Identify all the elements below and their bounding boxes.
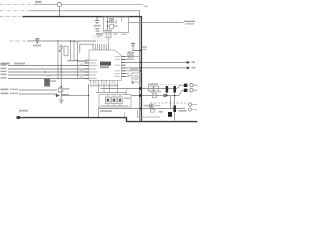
ground for C1 bbox=[95, 29, 100, 31]
label TP1 bbox=[35, 1, 42, 3]
label right top net bbox=[184, 21, 195, 23]
IC left pin name labels bbox=[90, 60, 97, 61]
resistor R6 bbox=[150, 104, 153, 108]
junction dots on rail bbox=[70, 40, 71, 41]
label left of R6 bbox=[144, 105, 150, 107]
label module vertical text bbox=[115, 20, 117, 24]
wire long thin bus top bbox=[30, 11, 140, 122]
wire bottom pin rail bbox=[96, 93, 126, 95]
capacitor C9 black bar bbox=[173, 106, 176, 113]
capacitor C7 polarized (black bar) bbox=[166, 86, 169, 93]
wire link x126 bbox=[125, 89, 127, 95]
transistor Q1 connector row bbox=[184, 84, 188, 87]
component D1 black block bbox=[168, 112, 172, 117]
junction C6 bbox=[140, 50, 142, 52]
label inside Z1 bbox=[124, 98, 130, 100]
ground symbol under cluster bbox=[59, 100, 63, 103]
label right of rail bbox=[143, 46, 148, 48]
label module bottom text bbox=[104, 30, 112, 32]
label at antenna line end bbox=[144, 6, 148, 8]
label near D1 bbox=[179, 110, 187, 112]
IC right pins bbox=[122, 57, 126, 77]
junction dots bus crossings bbox=[60, 65, 62, 67]
wire drop C bbox=[77, 41, 79, 79]
connector arrow K2 bbox=[187, 67, 190, 70]
trimmer C4 with X bbox=[106, 33, 111, 38]
wire lower row 2 bbox=[19, 93, 57, 95]
label L1 bbox=[33, 45, 41, 47]
wire lower row 1 bbox=[19, 89, 57, 91]
junction dots audio rows bbox=[166, 88, 168, 90]
connector arrow K1 bbox=[187, 61, 190, 64]
connector J1 (test point circle) bbox=[57, 2, 61, 6]
connector CN1 block bbox=[45, 79, 50, 87]
IC U1 body bbox=[89, 50, 122, 80]
label left of RL1 bbox=[128, 75, 132, 77]
ground terminal start blob bbox=[17, 116, 21, 119]
connector K3 bbox=[188, 103, 191, 106]
connector K4 bbox=[188, 108, 191, 111]
wire jog to K5 bbox=[177, 85, 184, 88]
label R2 bbox=[58, 50, 62, 53]
capacitor C11 small bbox=[163, 94, 166, 97]
label right of C4 bbox=[114, 33, 118, 35]
label R3 R4 bbox=[148, 83, 158, 85]
dashed control row bbox=[150, 102, 186, 104]
crystal X1 box bbox=[128, 52, 133, 57]
wire long out line 2 bbox=[123, 67, 188, 69]
bus pin labels bbox=[1, 64, 7, 65]
label C1 value bbox=[94, 25, 101, 27]
thick ground line bbox=[18, 118, 198, 122]
IC bottom pins bbox=[91, 80, 118, 84]
wire n-shape to pin1 bbox=[80, 44, 94, 53]
bus wire 2 bbox=[8, 68, 85, 70]
junction dot bbox=[57, 40, 58, 41]
IC top pin labels (rotated text) bbox=[93, 35, 108, 43]
wire drop node X bbox=[57, 41, 59, 79]
left lower label row 2 bbox=[1, 93, 9, 95]
wire stem from J1 bbox=[58, 7, 60, 17]
wire right top line bbox=[129, 22, 184, 24]
junction dots main vertical bbox=[140, 62, 142, 64]
bus wire 3 bbox=[8, 71, 85, 73]
label above n-wire bbox=[75, 41, 80, 43]
wire module internal column bbox=[107, 17, 109, 31]
shield box U2 (top module) bbox=[104, 17, 129, 33]
node GND label row bbox=[0, 16, 21, 18]
wire antenna line bbox=[34, 4, 57, 6]
wire long out line 1 bbox=[123, 61, 188, 63]
label right of R6 bbox=[154, 105, 160, 107]
ground cluster below module bbox=[96, 33, 103, 35]
oscillator box Z1 bbox=[99, 95, 131, 108]
wire jog to K6 bbox=[179, 90, 184, 95]
capacitor C5 bbox=[59, 44, 63, 100]
relay RL1 box with coil bbox=[132, 73, 140, 82]
J1 top notch bbox=[58, 2, 61, 3]
wire join segment bbox=[68, 60, 78, 62]
label below R7 bbox=[159, 111, 164, 113]
label left of ground start bbox=[19, 110, 28, 112]
diode D2 arrow bbox=[56, 95, 60, 97]
wire audio row 1 bbox=[101, 88, 178, 90]
wire drop B bbox=[73, 41, 75, 61]
node OSC row dashes bbox=[10, 40, 28, 42]
junction below RL1 bbox=[132, 82, 134, 84]
bus wire 4 bbox=[8, 74, 85, 76]
box around bottom right components bbox=[138, 110, 161, 118]
IC right pin labels bbox=[115, 56, 121, 57]
bus wire 1 bbox=[8, 65, 85, 67]
resistor R1 small box bbox=[110, 19, 114, 23]
inductor L1 symbol bbox=[35, 38, 40, 40]
wire C4 stem to pin bbox=[107, 38, 109, 44]
filter elements inside Z1 bbox=[106, 97, 111, 104]
label below Z1 bbox=[100, 110, 112, 112]
capacitor C2 small box bbox=[110, 24, 114, 28]
faint drop x124 bbox=[124, 112, 126, 118]
left data bus labels bbox=[1, 63, 10, 65]
resistor R2 box bbox=[64, 46, 68, 56]
node B+ label row dashes bbox=[0, 10, 30, 12]
resistor R4 bbox=[154, 86, 159, 91]
wire audio row 2 bbox=[132, 95, 180, 97]
junction dot at V+ rail bbox=[59, 16, 61, 18]
node ANT label row dashes bbox=[0, 4, 34, 6]
resistor R7 bbox=[151, 109, 155, 112]
wire bottom audio row bbox=[99, 108, 185, 110]
wire jog C7 to lower row bbox=[167, 93, 175, 122]
IC U1 part number bbox=[100, 62, 111, 66]
label right of CN1 bbox=[51, 80, 57, 82]
label upper ground cluster bbox=[96, 31, 101, 32]
label RL1 bbox=[130, 68, 138, 70]
wire mid horizontal bbox=[28, 40, 96, 42]
wire drop A bbox=[70, 41, 72, 61]
wire bottom pin drops bbox=[99, 84, 118, 93]
capacitor C10 cluster bbox=[60, 86, 62, 88]
wire thick supply rail bbox=[23, 17, 142, 122]
IC left pins bbox=[85, 60, 90, 78]
wire to relay bbox=[126, 70, 141, 72]
junction dot on bus bbox=[44, 71, 46, 73]
wire vertical to ground rail bbox=[88, 84, 90, 118]
label dashes row above bbox=[160, 84, 183, 86]
label X1 bbox=[127, 58, 134, 60]
IC right short wires bbox=[126, 57, 132, 77]
IC bottom pin number row bbox=[90, 85, 119, 87]
transistor Q2 connector row bbox=[184, 89, 188, 92]
wire module internal vertical right bbox=[121, 17, 123, 22]
label R5 bbox=[150, 91, 156, 93]
capacitor C6 on rail bbox=[131, 42, 140, 51]
label above CN1 bbox=[46, 75, 52, 77]
wire antenna line right part bbox=[62, 4, 144, 6]
wire cluster to vertical bbox=[69, 95, 89, 97]
left lower label row 1 bbox=[1, 89, 9, 91]
capacitor C8 polarized (black bar) bbox=[173, 86, 176, 93]
IC top pins bbox=[93, 44, 108, 50]
wire pin line extension bbox=[131, 56, 140, 58]
resistor R3 bbox=[149, 86, 154, 91]
capacitor C1 bbox=[95, 17, 100, 24]
bus wire 5 bbox=[8, 78, 85, 80]
wire Z1 to ground bbox=[98, 107, 100, 118]
resistor R5 bbox=[153, 94, 157, 98]
